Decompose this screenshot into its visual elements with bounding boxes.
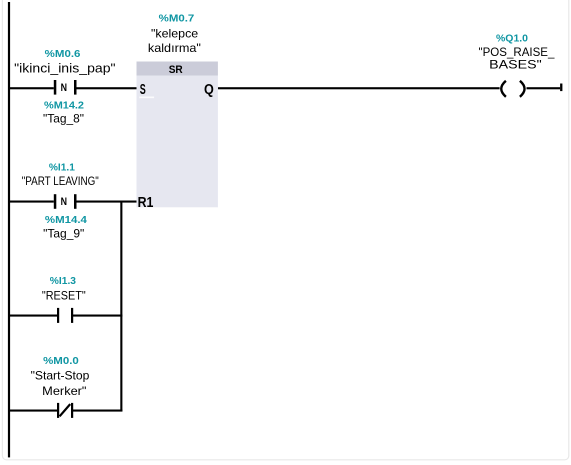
svg-text:%Q1.0: %Q1.0 <box>496 33 528 44</box>
svg-text:%M0.7: %M0.7 <box>159 14 195 25</box>
svg-text:"Tag_9": "Tag_9" <box>43 227 84 241</box>
svg-text:kaldırma": kaldırma" <box>148 41 201 55</box>
svg-text:%M14.2: %M14.2 <box>44 100 84 111</box>
svg-text:%I1.3: %I1.3 <box>50 276 77 287</box>
svg-text:"Start-Stop: "Start-Stop <box>31 368 90 382</box>
svg-text:N: N <box>61 82 67 94</box>
svg-text:R1: R1 <box>138 195 154 211</box>
svg-text:"RESET": "RESET" <box>42 288 86 302</box>
svg-text:Q: Q <box>204 82 214 98</box>
svg-text:%M14.4: %M14.4 <box>45 215 87 226</box>
svg-text:%M0.6: %M0.6 <box>45 49 81 60</box>
svg-text:Merker": Merker" <box>42 384 86 398</box>
svg-text:"ikinci_inis_pap": "ikinci_inis_pap" <box>14 61 116 76</box>
svg-text:"Tag_8": "Tag_8" <box>43 112 84 126</box>
svg-text:%I1.1: %I1.1 <box>49 162 75 173</box>
svg-text:N: N <box>61 196 67 208</box>
svg-text:"kelepce: "kelepce <box>151 26 199 40</box>
svg-text:SR: SR <box>169 64 183 76</box>
svg-text:"PART LEAVING": "PART LEAVING" <box>22 174 99 188</box>
svg-text:%M0.0: %M0.0 <box>43 356 79 367</box>
svg-text:S: S <box>140 82 146 98</box>
svg-text:BASES": BASES" <box>489 57 542 71</box>
